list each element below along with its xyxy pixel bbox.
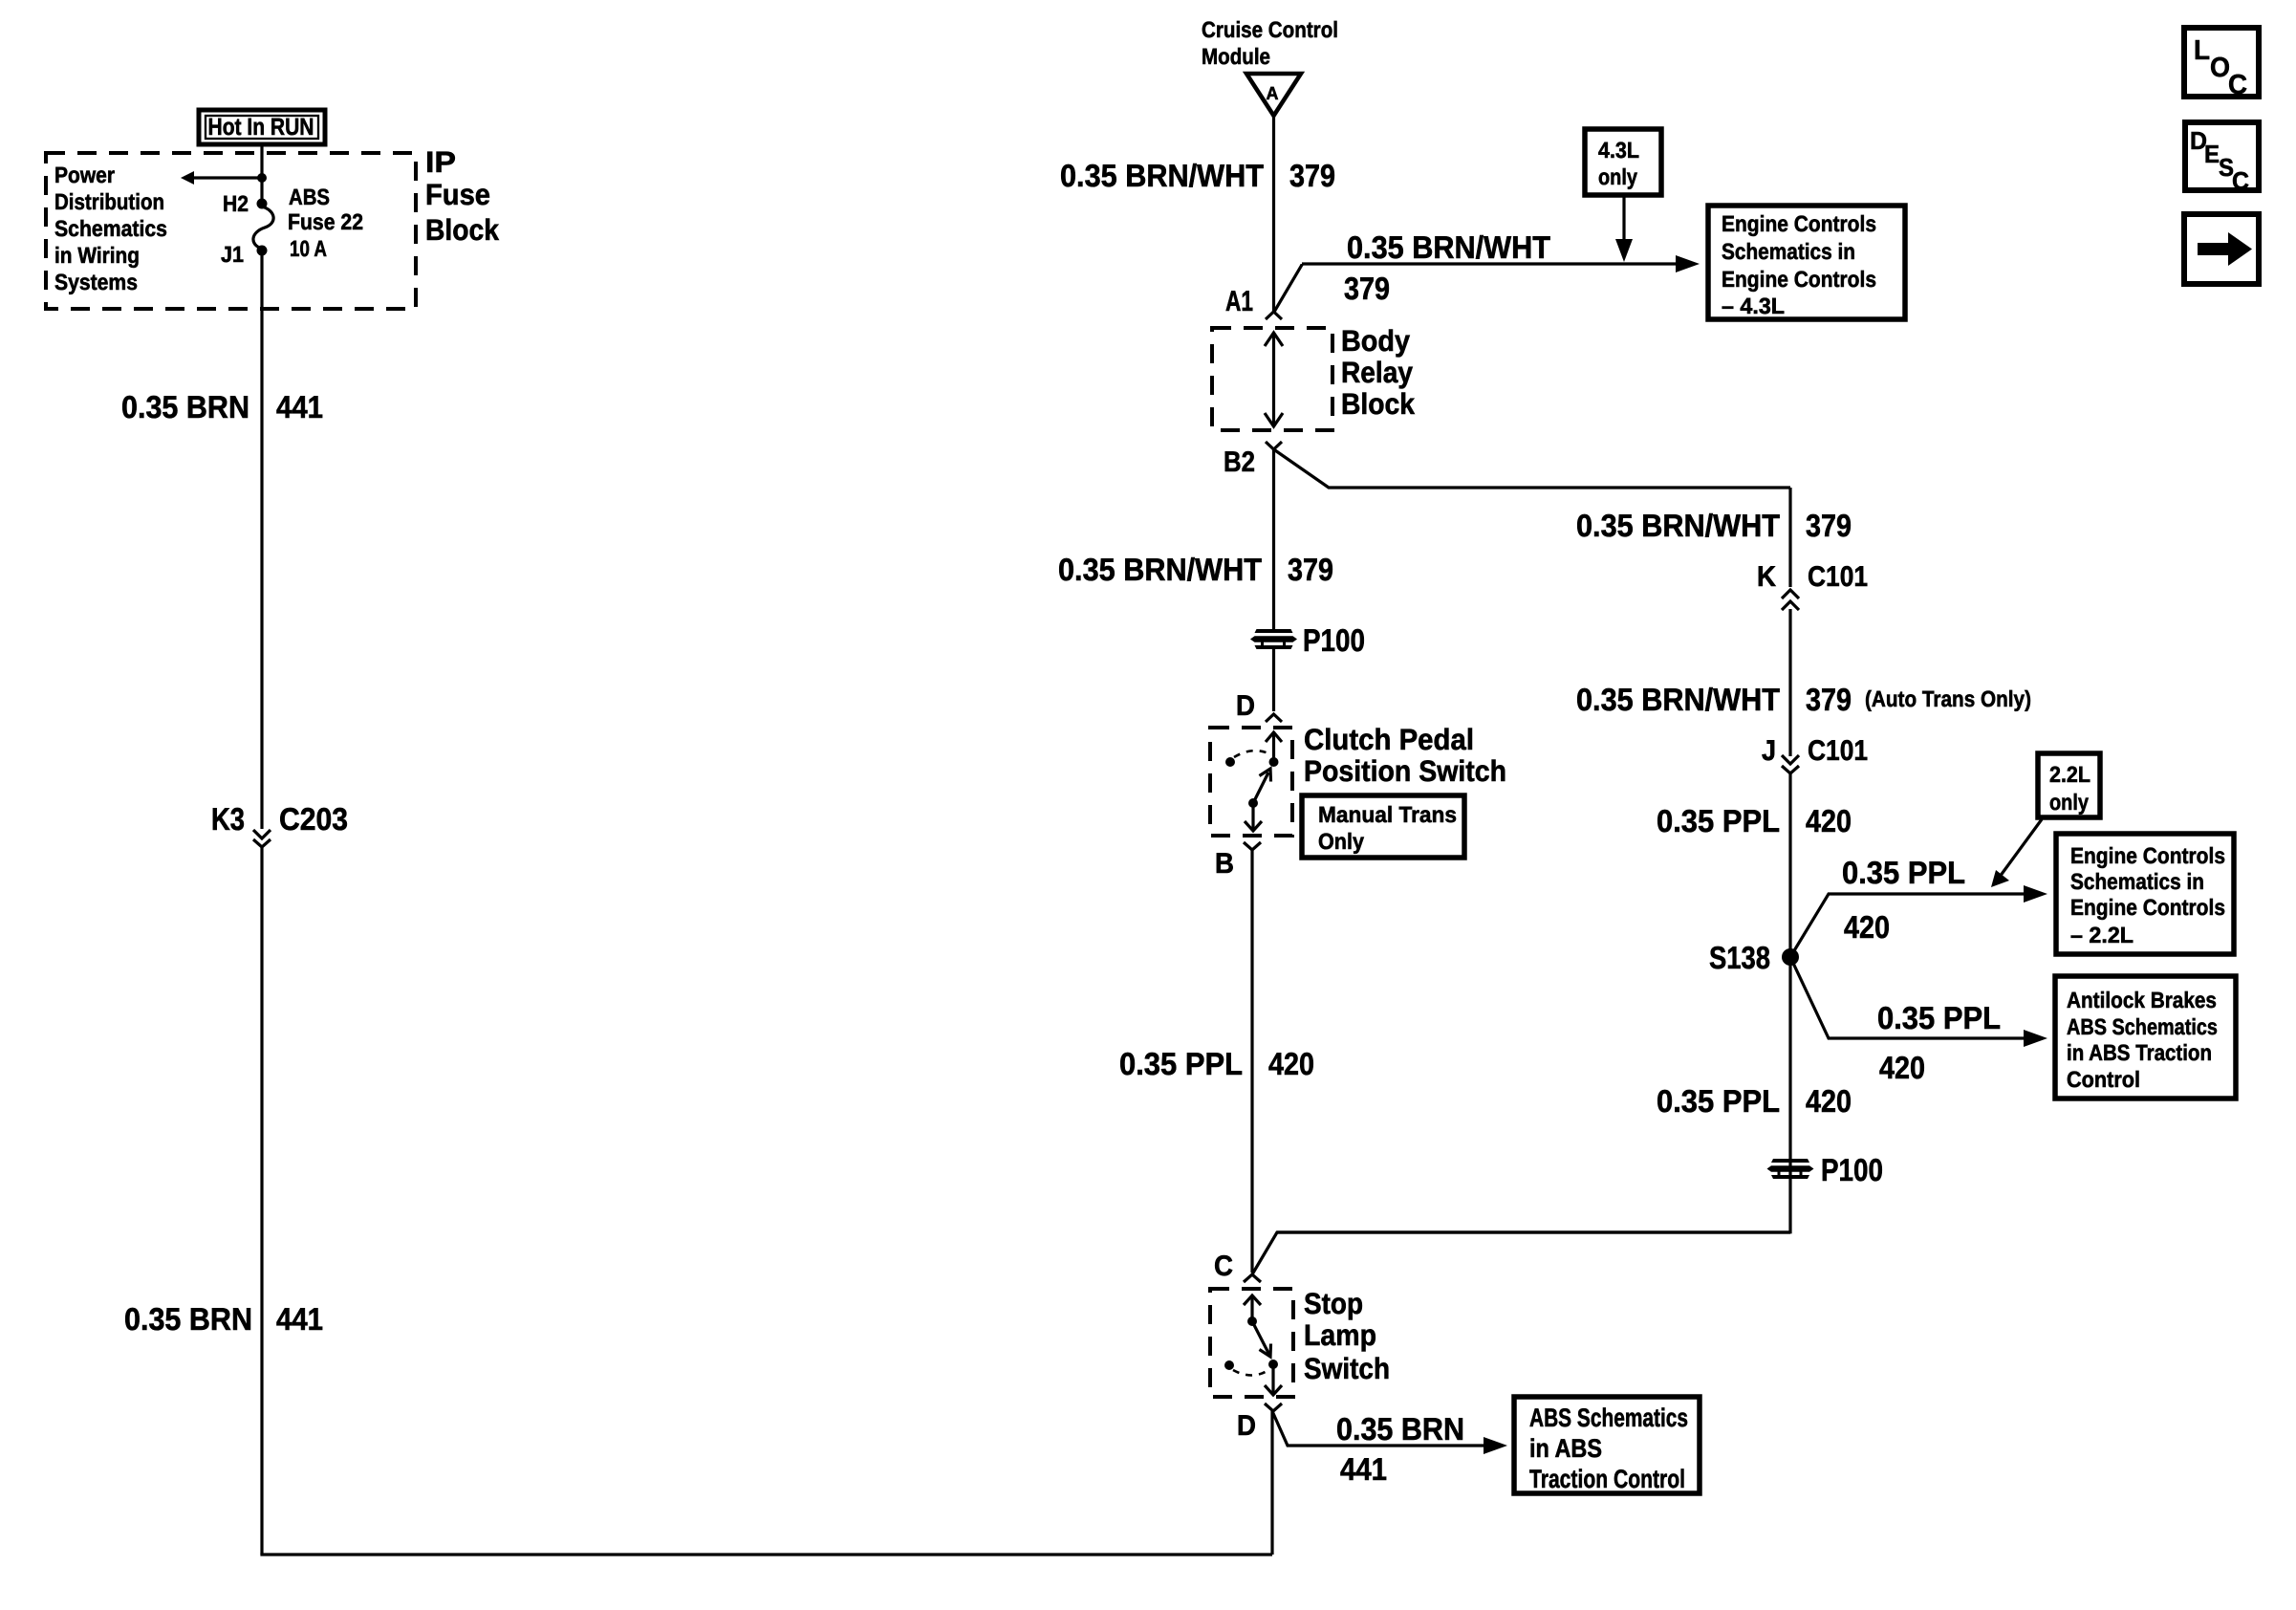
svg-text:0.35 BRN: 0.35 BRN <box>121 389 249 424</box>
svg-text:Engine Controls: Engine Controls <box>1722 267 1876 292</box>
switch contacts inside Stop Lamp Switch <box>1224 1295 1282 1395</box>
component: Body Relay Block dashed box <box>1212 328 1332 430</box>
svg-text:– 4.3L: – 4.3L <box>1722 294 1785 318</box>
svg-text:Cruise Control: Cruise Control <box>1202 17 1338 42</box>
svg-text:Block: Block <box>425 213 500 247</box>
svg-text:A: A <box>1267 84 1279 104</box>
grommet P100 (center) <box>1250 622 1365 658</box>
svg-text:B2: B2 <box>1224 446 1255 478</box>
wire: B down to C <box>1250 850 1253 1273</box>
label IP Fuse Block <box>425 145 500 247</box>
wire: right vertical J to bottom corner <box>1788 773 1791 1233</box>
svg-text:P100: P100 <box>1821 1152 1883 1187</box>
label Stop Lamp Switch <box>1304 1287 1390 1385</box>
switch contacts inside Clutch Pedal Position Switch <box>1225 732 1282 831</box>
connector K3 C203 <box>211 801 348 847</box>
svg-text:C: C <box>2232 166 2249 195</box>
legend box DESC <box>2185 122 2259 195</box>
wire label 0.35 BRN/WHT 379 (top) <box>1060 158 1335 193</box>
svg-text:D: D <box>1236 690 1255 722</box>
note box: Engine Controls Schematics in Engine Controls - 4.3L <box>1708 206 1905 319</box>
legend box arrow <box>2184 214 2259 284</box>
svg-text:0.35 BRN: 0.35 BRN <box>1336 1411 1464 1447</box>
svg-text:only: only <box>1598 164 1637 189</box>
svg-text:K: K <box>1757 561 1776 593</box>
wire: right vertical K to J <box>1788 609 1791 756</box>
svg-text:Engine Controls: Engine Controls <box>1722 211 1876 236</box>
wire through Body Relay Block (double arrow) <box>1265 333 1283 426</box>
svg-text:0.35 BRN/WHT: 0.35 BRN/WHT <box>1576 508 1780 543</box>
svg-text:Distribution: Distribution <box>54 189 164 214</box>
svg-text:P100: P100 <box>1303 622 1365 658</box>
svg-text:Module: Module <box>1202 44 1270 69</box>
svg-text:0.35 BRN: 0.35 BRN <box>124 1301 252 1337</box>
wire label 0.35 BRN 441 (upper) <box>121 389 323 424</box>
connector K C101 <box>1757 561 1868 610</box>
svg-text:– 2.2L: – 2.2L <box>2070 923 2134 947</box>
wire label 0.35 PPL 420 (right lower) <box>1657 1083 1852 1119</box>
svg-text:379: 379 <box>1289 158 1335 193</box>
svg-text:10 A: 10 A <box>290 236 327 261</box>
svg-text:L: L <box>2194 35 2210 66</box>
svg-text:Clutch Pedal: Clutch Pedal <box>1304 723 1474 756</box>
wire label 0.35 BRN/WHT 379 (right top) <box>1576 508 1852 543</box>
svg-text:Fuse 22: Fuse 22 <box>288 209 363 234</box>
svg-text:379: 379 <box>1806 682 1852 717</box>
svg-text:Schematics: Schematics <box>54 216 167 241</box>
svg-text:in ABS: in ABS <box>1529 1434 1602 1463</box>
svg-text:IP: IP <box>425 145 456 179</box>
svg-text:ABS: ABS <box>289 185 330 209</box>
wire label 0.35 PPL 420 (right upper) <box>1657 803 1852 838</box>
svg-text:A1: A1 <box>1225 286 1253 317</box>
note: Power Distribution Schematics in Wiring Systems <box>54 163 167 294</box>
svg-text:Fuse: Fuse <box>425 178 490 211</box>
note box: ABS Schematics in ABS Traction Control <box>1514 1397 1700 1493</box>
svg-text:0.35 PPL: 0.35 PPL <box>1119 1046 1243 1081</box>
grommet P100 (right) <box>1767 1152 1884 1187</box>
component: Clutch Pedal Position Switch dashed box <box>1210 728 1292 836</box>
wire: from triangle A down to A1 <box>1272 116 1275 312</box>
label box 4.3L only <box>1585 129 1661 195</box>
legend box LOC <box>2184 28 2259 100</box>
svg-text:379: 379 <box>1288 552 1333 587</box>
svg-text:0.35 BRN/WHT: 0.35 BRN/WHT <box>1058 552 1262 587</box>
wire: S138 lower branch to Antilock Brakes <box>1790 957 2047 1047</box>
svg-text:Only: Only <box>1318 829 1364 854</box>
svg-text:2.2L: 2.2L <box>2049 762 2090 787</box>
svg-text:Switch: Switch <box>1304 1352 1390 1385</box>
svg-text:Schematics in: Schematics in <box>1722 239 1855 264</box>
wire label 0.35 BRN/WHT 379 (Auto Trans Only) <box>1576 682 2031 717</box>
IP Fuse Block dashed box <box>46 153 416 309</box>
svg-text:441: 441 <box>276 1301 323 1337</box>
svg-text:Engine Controls: Engine Controls <box>2070 843 2225 868</box>
note box: Antilock Brakes ABS Schematics in ABS Traction Control <box>2055 976 2236 1099</box>
arrow from 4.3L only box down to wire <box>1615 195 1633 262</box>
svg-text:0.35 BRN/WHT: 0.35 BRN/WHT <box>1347 229 1550 265</box>
svg-text:0.35 PPL: 0.35 PPL <box>1877 1000 2001 1035</box>
wire: horizontal to Engine Controls 4.3L with arrow <box>1302 255 1700 272</box>
svg-text:C: C <box>2228 70 2247 100</box>
svg-text:Stop: Stop <box>1304 1287 1363 1320</box>
terminal A triangle of Cruise Control Module <box>1246 74 1301 116</box>
label Body Relay Block <box>1341 324 1416 421</box>
label Clutch Pedal Position Switch <box>1304 723 1506 788</box>
pin D of Stop Lamp Switch <box>1237 1403 1282 1442</box>
component: Stop Lamp Switch dashed box <box>1210 1289 1293 1397</box>
svg-text:Lamp: Lamp <box>1304 1318 1376 1352</box>
wire: right vertical top segment (B2 branch to K C101) <box>1788 488 1791 587</box>
svg-text:Manual Trans: Manual Trans <box>1318 802 1457 827</box>
svg-text:Relay: Relay <box>1341 356 1414 389</box>
wire label 0.35 PPL 420 (lower branch) <box>1877 1000 2001 1085</box>
svg-text:in Wiring: in Wiring <box>54 243 140 268</box>
wire: left vertical from Hot In RUN down to K3 connector <box>260 144 263 205</box>
fuse ABS Fuse 22 10 A (S-curve symbol) <box>253 207 273 249</box>
pin B of Clutch Pedal Position Switch <box>1215 842 1261 880</box>
svg-text:420: 420 <box>1268 1046 1314 1081</box>
svg-text:0.35 PPL: 0.35 PPL <box>1657 1083 1780 1119</box>
wire: D down to bottom horizontal <box>1270 1411 1273 1555</box>
svg-text:Systems: Systems <box>54 270 138 294</box>
svg-text:420: 420 <box>1806 1083 1852 1119</box>
svg-text:C203: C203 <box>279 801 348 837</box>
wire label 0.35 BRN/WHT 379 (mid) <box>1058 552 1333 587</box>
svg-text:C: C <box>1214 1251 1233 1282</box>
svg-text:O: O <box>2210 53 2230 83</box>
wire label 0.35 BRN 441 (lower) <box>124 1301 323 1337</box>
wire label 0.35 PPL 420 (upper branch) <box>1842 855 1965 945</box>
svg-text:E: E <box>2204 140 2220 168</box>
svg-text:Body: Body <box>1341 324 1411 358</box>
svg-text:K3: K3 <box>211 801 245 837</box>
node: junction dot at arrow takeoff <box>257 173 267 183</box>
svg-text:Schematics in: Schematics in <box>2070 869 2204 894</box>
wire: diagonal from A1 to 4.3L branch <box>1274 264 1303 313</box>
svg-text:Antilock Brakes: Antilock Brakes <box>2067 988 2217 1012</box>
svg-text:B: B <box>1215 848 1234 880</box>
svg-text:379: 379 <box>1806 508 1852 543</box>
svg-text:0.35 BRN/WHT: 0.35 BRN/WHT <box>1576 682 1780 717</box>
connector J C101 <box>1762 735 1868 773</box>
note box: Engine Controls Schematics in Engine Controls - 2.2L <box>2056 834 2234 954</box>
svg-text:J1: J1 <box>221 242 244 267</box>
svg-text:441: 441 <box>1340 1451 1387 1487</box>
svg-text:C101: C101 <box>1808 735 1868 767</box>
note box: Manual Trans Only <box>1302 795 1464 858</box>
wire label 0.35 PPL 420 (center) <box>1119 1046 1314 1081</box>
label box "Hot In RUN" <box>199 110 325 144</box>
svg-text:Hot In RUN: Hot In RUN <box>208 114 314 141</box>
pin C of Stop Lamp Switch <box>1214 1251 1261 1282</box>
svg-text:0.35 BRN/WHT: 0.35 BRN/WHT <box>1060 158 1264 193</box>
svg-text:C101: C101 <box>1808 561 1868 593</box>
pin H2 <box>223 191 268 216</box>
svg-text:Traction Control: Traction Control <box>1529 1465 1685 1493</box>
svg-text:441: 441 <box>276 389 323 424</box>
svg-text:Power: Power <box>54 163 115 187</box>
svg-text:H2: H2 <box>223 191 249 216</box>
svg-text:420: 420 <box>1806 803 1852 838</box>
wire: left vertical below C203 <box>260 847 263 1555</box>
wire: S138 upper branch to Engine Controls 2.2L <box>1790 885 2047 957</box>
svg-text:J: J <box>1762 735 1776 767</box>
pin D of Clutch Pedal Position Switch <box>1236 690 1282 722</box>
svg-text:only: only <box>2049 790 2089 815</box>
svg-text:420: 420 <box>1844 909 1890 945</box>
wire: right bottom horizontal back to C <box>1277 1230 1790 1233</box>
svg-text:Position Switch: Position Switch <box>1304 754 1506 788</box>
wire: center vertical B2 to P100 <box>1272 449 1275 629</box>
pin A1 <box>1225 286 1282 319</box>
wire: bottom horizontal <box>260 1553 1272 1556</box>
svg-text:(Auto Trans Only): (Auto Trans Only) <box>1865 686 2031 711</box>
wire: diagonal from C up to right-branch horizontal <box>1252 1232 1790 1274</box>
component: Cruise Control Module <box>1202 17 1338 69</box>
svg-text:ABS Schematics: ABS Schematics <box>1529 1403 1688 1432</box>
wire: P100 to D <box>1272 649 1275 711</box>
svg-text:420: 420 <box>1879 1050 1925 1085</box>
svg-text:0.35 PPL: 0.35 PPL <box>1657 803 1780 838</box>
wire: branch from D to ABS Schematics arrow <box>1272 1411 1507 1454</box>
svg-text:Block: Block <box>1341 387 1416 421</box>
svg-text:4.3L: 4.3L <box>1598 138 1639 163</box>
svg-text:379: 379 <box>1344 271 1390 306</box>
svg-text:D: D <box>1237 1410 1256 1442</box>
wire label 0.35 BRN/WHT 379 (branch) <box>1344 229 1550 306</box>
wire: arrow to Power Distribution <box>181 171 262 185</box>
svg-text:ABS Schematics: ABS Schematics <box>2067 1014 2218 1039</box>
wire: diagonal from B2 to right branch <box>1274 449 1791 488</box>
svg-text:0.35 PPL: 0.35 PPL <box>1842 855 1965 890</box>
svg-text:Engine Controls: Engine Controls <box>2070 895 2225 920</box>
value label: ABS Fuse 22 10 A <box>288 185 363 261</box>
wire label 0.35 BRN 441 (branch) <box>1336 1411 1464 1487</box>
arrow from 2.2L only box to branch wire <box>1991 819 2042 887</box>
svg-text:Control: Control <box>2067 1067 2140 1092</box>
svg-text:in ABS Traction: in ABS Traction <box>2067 1040 2212 1065</box>
label box 2.2L only <box>2038 753 2100 817</box>
pin B2 <box>1224 442 1282 478</box>
splice S138 <box>1709 940 1799 975</box>
svg-text:S138: S138 <box>1709 940 1770 975</box>
pin J1 <box>221 242 268 267</box>
